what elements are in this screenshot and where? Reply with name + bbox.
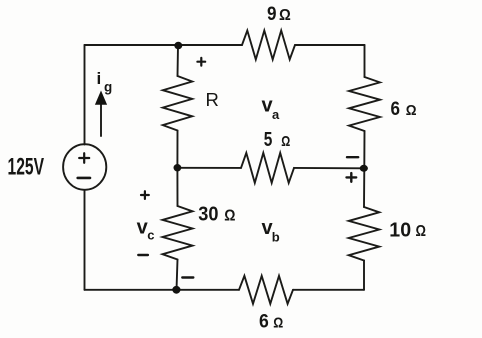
polarity + at top of R [197,58,205,66]
svg-text:Ω: Ω [224,207,235,224]
resistor R (middle upper branch) [163,76,192,131]
svg-text:b: b [272,230,280,245]
wire middle column (node A to resistor R) [177,46,180,77]
polarity + above vc [141,191,149,199]
wire top (node A to 9ohm resistor) [178,44,242,46]
wire bottom-left (node C to 6ohm) [177,289,240,291]
resistor 6ohm (right upper branch) [349,77,380,131]
svg-text:Ω: Ω [273,316,283,332]
current arrow ig shaft [100,104,102,137]
wire bottom-right (corner to 6ohm) [293,289,364,291]
svg-text:a: a [272,107,280,122]
wire right lower (10ohm to bottom corner) [363,261,365,290]
svg-text:30: 30 [198,203,218,226]
wire left lower (source to bottom corner) [84,190,86,290]
wire middle horizontal (node B to 5ohm) [177,167,241,169]
resistor 10ohm (right lower branch) [349,207,380,261]
polarity - right of 30ohm bottom (vb minus) [182,276,193,278]
current arrow ig head [95,91,107,105]
svg-text:i: i [97,69,102,88]
wire middle column (R to node B) [176,131,178,168]
svg-text:Ω: Ω [416,223,427,240]
resistor 30ohm (middle lower branch) [163,206,193,260]
svg-text:Ω: Ω [406,103,417,119]
wire bottom (node C to left corner) [85,289,177,291]
svg-text:9: 9 [267,3,277,25]
node C (bottom middle junction) [172,286,180,294]
node D (right middle junction) [360,165,368,172]
wire right (6ohm to node D) [363,131,365,168]
wire left upper (top corner to source) [84,45,86,145]
resistor 6ohm (bottom branch) [239,276,293,304]
voltage source 125V circle [63,144,106,190]
svg-text:10: 10 [389,218,411,241]
node B (middle junction) [174,164,182,171]
polarity + inside source [79,153,89,163]
polarity - above node D (va minus) [347,156,358,158]
polarity - inside source [78,177,90,180]
svg-text:Ω: Ω [281,133,290,150]
svg-text:Ω: Ω [279,7,291,24]
svg-text:6: 6 [391,99,401,120]
resistor 9ohm (top branch) [242,31,295,60]
svg-text:g: g [104,80,112,95]
svg-text:R: R [206,89,219,110]
wire top-right (9ohm to corner) [295,44,365,46]
svg-text:5: 5 [264,128,273,151]
polarity - below vc [138,254,148,256]
wire right (node D to 10ohm) [363,168,365,207]
wire middle horizontal (5ohm to node D) [294,167,364,169]
svg-text:125V: 125V [8,154,45,181]
node A (top middle junction) [174,42,182,50]
wire middle column (30ohm to node C) [177,260,178,290]
svg-text:c: c [147,228,154,243]
polarity + below node D (vb plus) [347,173,357,182]
wire right upper (corner down to 6ohm) [364,45,366,77]
wire middle column (node B to 30ohm) [176,168,178,206]
svg-text:6: 6 [259,311,269,333]
wire top-left horizontal (corner to node A) [85,44,179,46]
resistor 5ohm (middle branch) [241,153,294,183]
